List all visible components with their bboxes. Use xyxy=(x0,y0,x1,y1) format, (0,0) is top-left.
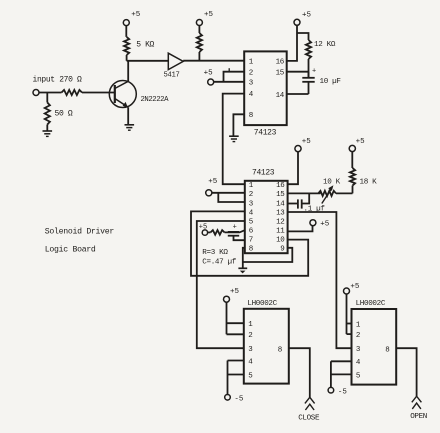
svg-text:13: 13 xyxy=(276,209,285,217)
svg-text:C=.47 µf: C=.47 µf xyxy=(202,259,236,267)
svg-text:+5: +5 xyxy=(302,11,312,19)
svg-text:2N2222A: 2N2222A xyxy=(141,96,170,104)
svg-text:3: 3 xyxy=(249,79,254,87)
svg-text:+: + xyxy=(312,68,316,76)
svg-text:+5: +5 xyxy=(350,283,360,291)
svg-text:3: 3 xyxy=(249,200,254,208)
wire IC2 pin 14 to .1uF cap xyxy=(288,203,298,205)
svg-text:+5: +5 xyxy=(199,223,207,231)
svg-text:74123: 74123 xyxy=(254,128,277,137)
svg-text:OPEN: OPEN xyxy=(410,413,427,421)
node: input terminal xyxy=(33,90,39,96)
ground below IC1 pin 8 xyxy=(229,135,239,137)
power +5 terminal left driver xyxy=(224,296,230,302)
svg-text:1: 1 xyxy=(249,59,254,67)
svg-text:1: 1 xyxy=(249,182,254,190)
wire pot to 18K xyxy=(336,192,353,194)
wire cap to pin 15 node xyxy=(302,193,310,203)
resistor R 18K xyxy=(350,168,355,186)
svg-text:10 µF: 10 µF xyxy=(320,78,342,86)
svg-text:14: 14 xyxy=(276,200,285,208)
resistor pullup on buffer output xyxy=(197,33,202,52)
svg-text:+5: +5 xyxy=(204,11,214,19)
power +5 terminal top right xyxy=(294,19,300,25)
potentiometer 10K xyxy=(318,191,336,196)
capacitor C 10uF xyxy=(302,77,314,79)
resistor R 12K xyxy=(306,40,311,59)
wire -5 to pins 4 5 right driver xyxy=(330,361,332,387)
wire IC2 pin 13 to right driver pin 3 xyxy=(288,212,352,348)
svg-text:18 K: 18 K xyxy=(360,178,378,186)
IC U4 LH0002C (left) xyxy=(244,309,289,384)
IC U5 LH0002C (right) xyxy=(352,309,397,385)
svg-text:16: 16 xyxy=(276,182,285,190)
svg-text:1: 1 xyxy=(248,321,253,329)
svg-text:2: 2 xyxy=(249,191,254,199)
wire buffer output to IC1 pin 1 xyxy=(183,60,244,62)
resistor R timing 3K xyxy=(211,230,225,235)
svg-text:50 Ω: 50 Ω xyxy=(55,110,73,119)
wire 18K top to +5 xyxy=(351,152,353,168)
IC U2 74123 monostable (top) xyxy=(244,51,287,125)
wire IC2 pin 8 to ground xyxy=(243,248,245,268)
capacitor C .1uF xyxy=(297,199,299,208)
wire IC2 pin 16 to +5 xyxy=(288,152,298,185)
svg-text:+5: +5 xyxy=(302,138,312,146)
power +5 terminal at IC2 pin 2 xyxy=(206,190,212,196)
svg-text:6: 6 xyxy=(249,228,254,236)
svg-text:+: + xyxy=(233,224,237,232)
wire IC1 pin 2 tie xyxy=(224,72,245,82)
ground below emitter xyxy=(125,124,135,126)
svg-text:CLOSE: CLOSE xyxy=(298,414,320,422)
wire +5 to pullup resistor xyxy=(198,26,200,34)
svg-text:+5: +5 xyxy=(356,138,366,146)
wire cap to IC1 pin 14 xyxy=(308,82,310,94)
pot wiper arrow xyxy=(322,188,332,203)
power +5 terminal at IC2 pin 11 xyxy=(310,220,316,226)
svg-text:15: 15 xyxy=(276,69,285,77)
power +5 top-left terminal xyxy=(123,20,129,26)
wire IC2 pin 9 to ground return xyxy=(243,248,292,262)
svg-text:+5: +5 xyxy=(204,70,214,78)
wire +5 jog to 12K resistor xyxy=(297,33,309,40)
wire IC2 pin 11 to +5 xyxy=(288,226,313,232)
svg-text:4: 4 xyxy=(248,358,253,366)
wire IC2 pin 10 loop to pin 4 xyxy=(191,211,308,275)
svg-text:5 KΩ: 5 KΩ xyxy=(136,40,154,49)
power +5 terminal in RC block xyxy=(202,230,207,235)
svg-text:15: 15 xyxy=(276,191,285,199)
wire IC2 pin 5 down to left driver pin 3 xyxy=(197,221,245,348)
power +5 terminal right driver xyxy=(344,288,350,294)
svg-text:10: 10 xyxy=(276,237,285,245)
svg-text:7: 7 xyxy=(249,237,254,245)
svg-text:10 K: 10 K xyxy=(323,178,341,186)
svg-text:2: 2 xyxy=(249,69,254,77)
svg-text:14: 14 xyxy=(276,92,285,100)
svg-text:12: 12 xyxy=(276,219,284,227)
svg-text:74123: 74123 xyxy=(252,169,275,178)
svg-text:8: 8 xyxy=(249,246,254,254)
wire emitter down xyxy=(127,107,129,125)
svg-text:+5: +5 xyxy=(131,11,141,19)
svg-text:9: 9 xyxy=(280,246,284,254)
svg-text:+5: +5 xyxy=(230,288,240,296)
wire right driver pin 8 output xyxy=(396,348,416,396)
svg-text:-5: -5 xyxy=(234,395,244,403)
resistor R 50 ohm xyxy=(45,103,50,125)
svg-text:LH0002C: LH0002C xyxy=(247,300,277,308)
wire R timing to IC2 pin 6 xyxy=(225,230,245,232)
svg-text:+5: +5 xyxy=(320,220,330,228)
wire collector up xyxy=(127,61,129,82)
wire +5 to pins 1 2 right driver xyxy=(346,294,348,334)
svg-text:4: 4 xyxy=(249,91,254,99)
svg-text:12 KΩ: 12 KΩ xyxy=(314,41,336,49)
svg-text:2: 2 xyxy=(248,332,253,340)
wire left driver pin 8 output xyxy=(289,348,310,397)
tick mark on pin 2 wire xyxy=(228,68,230,72)
wire collector node to buffer input xyxy=(127,60,169,62)
svg-text:3: 3 xyxy=(356,346,361,354)
connector OPEN chevrons xyxy=(412,396,422,402)
connector CLOSE chevrons xyxy=(305,397,315,403)
wire IC2 pin 15 to pot and 18K xyxy=(288,192,321,194)
power +5 terminal at IC1 pins 2-3 xyxy=(208,79,214,85)
svg-text:-5: -5 xyxy=(338,388,348,396)
svg-text:8: 8 xyxy=(278,346,283,354)
svg-text:1: 1 xyxy=(356,321,361,329)
svg-text:input 270 Ω: input 270 Ω xyxy=(33,76,83,85)
wire IC1 pin 8 to ground xyxy=(233,114,244,136)
wire input to resistor xyxy=(39,92,62,94)
svg-text:8: 8 xyxy=(385,346,390,354)
svg-text:2: 2 xyxy=(356,332,361,340)
power +5 terminal above pullup xyxy=(196,20,202,26)
ground below IC2 pin 8 xyxy=(238,267,247,269)
power +5 terminal above 18K xyxy=(349,145,355,151)
wire +5 to R timing xyxy=(208,231,211,233)
resistor R 270 ohm xyxy=(62,90,83,95)
svg-text:Solenoid Driver: Solenoid Driver xyxy=(45,227,115,237)
power +5 terminal above IC2 pin 16 xyxy=(295,146,301,152)
wire 270 ohm to transistor base xyxy=(82,92,115,94)
ground below 50 ohm xyxy=(43,130,53,132)
wire +5 to 5K resistor xyxy=(125,26,127,37)
capacitor C timing .47uF xyxy=(228,231,239,233)
wire pullup to output wire xyxy=(198,52,200,61)
resistor R 5K xyxy=(124,37,129,55)
IC U3 74123 monostable (middle) xyxy=(245,181,288,253)
svg-text:11: 11 xyxy=(276,228,285,236)
svg-text:5417: 5417 xyxy=(164,71,180,79)
svg-text:R=3 KΩ: R=3 KΩ xyxy=(202,249,228,257)
wire -5 to pins 4 5 left driver xyxy=(227,361,229,395)
wire 5K to collector node xyxy=(126,55,128,61)
svg-text:Logic Board: Logic Board xyxy=(45,245,96,255)
svg-text:4: 4 xyxy=(249,209,254,217)
wire IC1 pin 16 to +5 xyxy=(287,25,297,61)
wire 50 ohm to ground xyxy=(46,125,48,132)
svg-text:8: 8 xyxy=(249,112,254,120)
wire junction down to 50 ohm xyxy=(46,93,48,103)
wire 18K bottom xyxy=(352,186,354,194)
wire IC1 pin 4 down to IC2 pin 1 xyxy=(223,94,245,185)
wire +5 to IC1 pin 3 xyxy=(214,81,245,83)
power -5 terminal right driver xyxy=(328,387,334,393)
svg-text:4: 4 xyxy=(356,359,361,367)
svg-text:5: 5 xyxy=(248,372,253,380)
svg-text:5: 5 xyxy=(249,219,254,227)
wire IC1 pin 15 to capacitor xyxy=(287,71,309,73)
svg-text:3: 3 xyxy=(248,346,253,354)
wire timing cap to IC2 pin 7 xyxy=(234,236,245,241)
svg-text:LH0002C: LH0002C xyxy=(356,300,386,308)
buffer U1 5417 xyxy=(168,53,183,69)
svg-text:16: 16 xyxy=(276,59,285,67)
svg-text:5: 5 xyxy=(356,372,361,380)
wire +5 to pins 1 2 left driver xyxy=(226,302,228,334)
wire +5 to IC2 pin 2 xyxy=(212,192,245,194)
transistor Q1 2N2222A xyxy=(109,81,136,108)
wire 12K down to pin 15 node xyxy=(308,59,310,78)
wire IC2 pin 3 tie xyxy=(218,193,245,202)
power -5 terminal left driver xyxy=(225,395,231,401)
svg-text:+5: +5 xyxy=(208,178,218,186)
